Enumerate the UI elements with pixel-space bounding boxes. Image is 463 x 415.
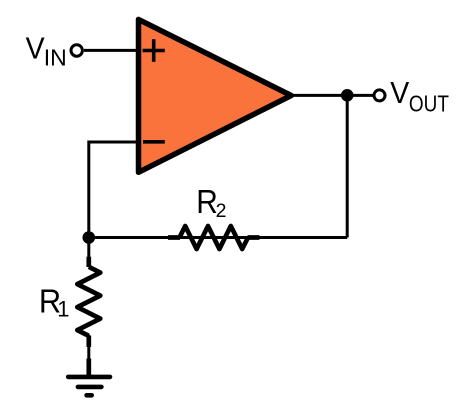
svg-text:1: 1 (57, 296, 69, 321)
svg-text:2: 2 (216, 200, 227, 222)
svg-text:R: R (196, 183, 218, 220)
svg-text:V: V (26, 31, 45, 66)
svg-text:V: V (390, 75, 409, 110)
svg-text:IN: IN (44, 44, 67, 70)
svg-text:OUT: OUT (409, 90, 449, 116)
